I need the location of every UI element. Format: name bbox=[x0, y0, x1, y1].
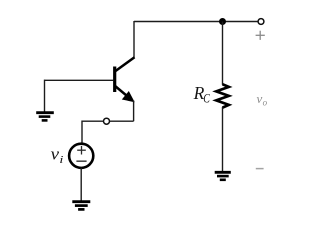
svg-text:i: i bbox=[59, 154, 63, 166]
wire: collector vertical bbox=[133, 21, 135, 58]
wire: resistor bottom to ground bbox=[222, 107, 224, 171]
label: - (output polarity, gray) bbox=[256, 168, 264, 170]
ground: base (left) bbox=[36, 113, 54, 121]
svg-text:v: v bbox=[51, 145, 60, 164]
label: v_o (output voltage, gray) bbox=[257, 91, 268, 107]
transistor Q1: base bar bbox=[113, 67, 116, 93]
wire: base wire to left bbox=[45, 79, 114, 81]
terminal: input open circle on emitter wire bbox=[104, 118, 110, 124]
ground: below RC bbox=[215, 172, 231, 180]
wire: emitter vertical down bbox=[133, 101, 135, 122]
source v_i: plus sign bbox=[77, 146, 86, 155]
svg-text:o: o bbox=[263, 97, 268, 107]
wire: top rail from collector to output terminal bbox=[134, 21, 259, 23]
source v_i: circle bbox=[69, 144, 93, 168]
svg-text:C: C bbox=[203, 90, 210, 105]
label: v_i bbox=[51, 145, 64, 166]
wire: source bottom to ground bbox=[80, 168, 82, 201]
ground: below source bbox=[72, 202, 90, 210]
wire: left vertical to ground bbox=[44, 80, 46, 112]
terminal: output open circle bbox=[258, 19, 264, 25]
wire: node to resistor top bbox=[222, 22, 224, 85]
label: + (output polarity, gray) bbox=[256, 31, 265, 40]
wire: down to source top bbox=[81, 121, 83, 145]
source v_i: minus sign bbox=[76, 160, 86, 162]
transistor Q1: emitter stroke with arrow bbox=[115, 86, 134, 102]
resistor RC zigzag bbox=[216, 84, 229, 107]
wire: emitter horizontal to input terminal bbox=[82, 120, 134, 122]
transistor Q1: collector stroke bbox=[115, 57, 135, 72]
node A: collector/output junction dot bbox=[219, 18, 226, 25]
svg-text:v: v bbox=[257, 91, 263, 106]
label: R_C value bbox=[193, 83, 210, 105]
